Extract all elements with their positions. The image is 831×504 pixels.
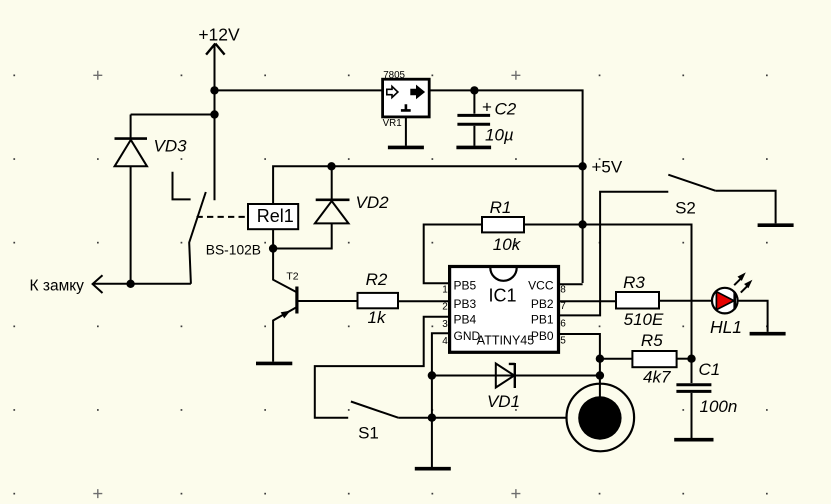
svg-text:7: 7 <box>560 301 566 312</box>
svg-text:T2: T2 <box>286 271 298 283</box>
wire lock line <box>93 283 191 285</box>
wire R1 right to +5V branch and down to C1 <box>524 225 692 359</box>
svg-text:10µ: 10µ <box>485 126 514 145</box>
svg-text:10k: 10k <box>493 235 522 254</box>
node junction PB0 / R5 <box>596 355 604 363</box>
wire R5 to C1 node <box>677 358 692 360</box>
svg-text:R5: R5 <box>641 331 663 350</box>
svg-text:3: 3 <box>442 319 448 330</box>
svg-text:R2: R2 <box>366 270 388 289</box>
svg-text:C2: C2 <box>495 100 517 119</box>
node К замку label with arrow <box>30 275 103 294</box>
svg-text:S2: S2 <box>675 199 696 218</box>
svg-text:S1: S1 <box>358 424 379 443</box>
capacitor C2 <box>457 90 516 145</box>
svg-text:1: 1 <box>442 285 448 296</box>
wire IC1 pin3 PB4 loop to S1 <box>315 317 450 418</box>
svg-text:+5V: +5V <box>592 158 623 177</box>
svg-text:R3: R3 <box>623 273 645 292</box>
svg-text:PB1: PB1 <box>531 313 554 327</box>
resistor R5 <box>632 331 676 387</box>
chip IC1 ATTINY45 <box>442 267 566 353</box>
svg-text:R1: R1 <box>490 198 512 217</box>
node junction relay / VD2 / T2 collector <box>269 244 277 252</box>
svg-text:VD2: VD2 <box>356 193 390 212</box>
wire S2 to ground <box>715 191 775 224</box>
ground at C2 <box>456 146 491 150</box>
resistor R1 <box>482 198 524 254</box>
ground at HL1 <box>750 332 786 336</box>
wire R3 to HL1 <box>659 300 713 302</box>
node junction GND / S1 / reader <box>428 414 436 422</box>
svg-text:Rel1: Rel1 <box>257 206 294 226</box>
wire VD2 bottom to junction <box>273 223 332 248</box>
touch memory reader contact <box>567 384 635 452</box>
node junction PB0 / VD1 <box>596 371 604 379</box>
diode VD3 <box>115 137 188 167</box>
resistor R2 <box>358 270 399 327</box>
svg-text:510E: 510E <box>624 310 664 329</box>
wire IC1 pin4 GND down <box>432 333 450 467</box>
svg-text:2: 2 <box>442 302 448 313</box>
node junction GND / VD1 <box>428 371 436 379</box>
svg-text:HL1: HL1 <box>710 317 742 337</box>
svg-text:VR1: VR1 <box>383 118 402 129</box>
wire regulator ground stem <box>405 117 407 146</box>
wire regulator output to +5V corner <box>429 90 582 283</box>
capacitor C1 <box>676 359 737 438</box>
ground at S2 <box>758 223 794 227</box>
relay fixed contact bracket <box>173 172 191 200</box>
node junction +5V rail <box>578 162 586 170</box>
svg-text:VD1: VD1 <box>487 392 520 411</box>
wire GND net VD1 line <box>432 375 600 377</box>
wire R1 loop to IC1 pin1 PB5 <box>424 225 482 284</box>
svg-text:PB5: PB5 <box>454 279 477 293</box>
wire IC1 pin7 PB2 to R3 <box>559 300 617 302</box>
node junction on +12V at VD3 branch <box>210 110 218 118</box>
svg-text:ATTINY45: ATTINY45 <box>477 334 534 348</box>
switch S2 <box>668 175 715 218</box>
node junction VD2 top on +5V rail <box>327 162 335 170</box>
voltage regulator VR1 7805 <box>383 70 430 129</box>
ground at GND column <box>415 467 451 471</box>
power rail +12V arrow symbol <box>198 25 240 201</box>
wire R2 to IC1 pin2 PB3 <box>398 300 450 302</box>
svg-text:GND: GND <box>454 329 481 343</box>
wire IC1 pin5 PB0 down to reader <box>559 334 600 397</box>
svg-text:PB4: PB4 <box>454 313 477 327</box>
wire +12V rail to regulator input <box>215 89 383 91</box>
svg-text:PB0: PB0 <box>531 329 554 343</box>
relay coil Rel1 <box>248 204 298 229</box>
svg-text:+: + <box>482 98 492 117</box>
svg-text:8: 8 <box>560 285 566 296</box>
relay contact blade (switch to lock) <box>189 192 206 284</box>
svg-text:C1: C1 <box>699 360 721 379</box>
svg-text:VD3: VD3 <box>154 137 188 156</box>
wire S1 to GND column and reader ring <box>398 417 566 419</box>
wire HL1 cathode to ground <box>737 301 767 332</box>
wire VD3 anode down to lock line <box>130 166 132 283</box>
svg-text:PB3: PB3 <box>454 297 477 311</box>
switch S1 <box>351 402 398 443</box>
ground at C1 <box>674 438 713 442</box>
node junction R5 / C1 / +5V branch <box>687 355 695 363</box>
svg-text:+12V: +12V <box>198 25 240 45</box>
svg-text:4: 4 <box>442 336 448 347</box>
svg-text:7805: 7805 <box>383 70 405 81</box>
svg-text:100n: 100n <box>700 397 738 416</box>
LED HL1 <box>710 272 752 337</box>
node junction C2 top <box>470 86 478 94</box>
wire T2 base to R2 <box>298 300 358 302</box>
wire IC1 pin8 VCC stub <box>559 283 583 285</box>
wire relay coil to +5V rail <box>273 166 582 204</box>
wire +12V to VD3 branch <box>131 115 215 138</box>
svg-text:IC1: IC1 <box>488 286 516 306</box>
svg-text:PB2: PB2 <box>531 297 554 311</box>
wire relay coil bottom to junction <box>272 229 274 248</box>
node junction lock line / VD3 <box>126 280 134 288</box>
svg-text:6: 6 <box>560 319 566 330</box>
ground at T2 emitter <box>256 362 292 366</box>
svg-text:1k: 1k <box>368 308 387 327</box>
svg-text:К замку: К замку <box>30 278 85 295</box>
node junction on +12V at regulator branch <box>210 86 218 94</box>
wire PB0 node to R5 <box>600 358 633 360</box>
svg-text:VCC: VCC <box>528 279 554 293</box>
node junction R1 right on +5V column <box>578 220 586 228</box>
dashed actuation link to relay coil <box>197 216 249 218</box>
transistor T2 <box>273 249 299 362</box>
svg-text:4k7: 4k7 <box>643 368 671 387</box>
svg-text:BS-102B: BS-102B <box>206 243 261 258</box>
resistor R3 <box>616 273 664 329</box>
diode VD1 <box>487 363 520 411</box>
svg-text:5: 5 <box>560 336 566 347</box>
diode VD2 <box>315 166 389 223</box>
ground at regulator <box>388 146 424 150</box>
wire IC1 pin6 PB1 to switch S2 <box>559 192 669 316</box>
